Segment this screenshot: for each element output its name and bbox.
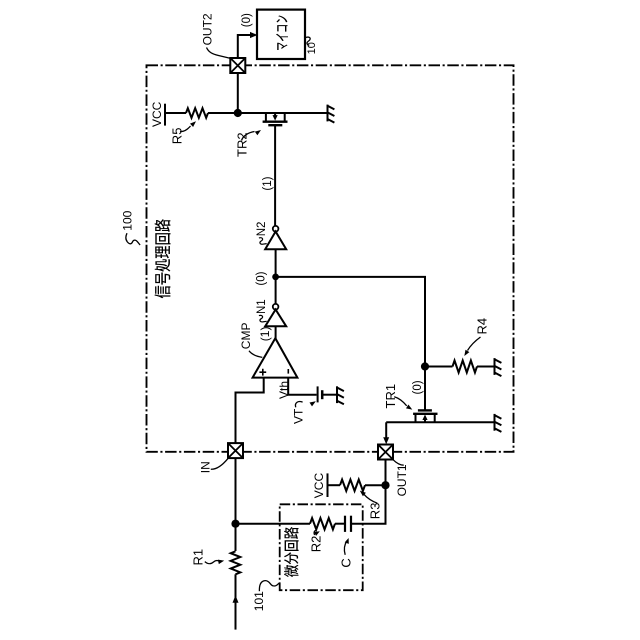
svg-text:R3: R3 — [368, 503, 383, 520]
svg-text:N1: N1 — [256, 299, 268, 314]
wire N2 input to node (0) to N1 output — [275, 249, 277, 304]
wire node left to R3 — [365, 484, 386, 486]
VCC rail (top) — [164, 104, 166, 126]
resistor R2 — [310, 518, 335, 529]
ground at TR1 — [494, 414, 496, 431]
wire: TR2 gate down to inverter N2 — [274, 125, 276, 226]
wire R5 to node and TR2 drain, to ground — [208, 112, 327, 114]
wire: OUT2 terminal to microcontroller with arrow — [238, 35, 252, 58]
label 信号処理回路 — [155, 219, 171, 298]
wire IN down to R1/differentiator node — [235, 458, 237, 551]
inverter N2 — [273, 226, 279, 232]
wire R3 to VCC rail — [329, 484, 341, 486]
svg-text:TR1: TR1 — [383, 384, 398, 409]
svg-text:101: 101 — [252, 591, 266, 611]
terminal OUT2 — [230, 58, 245, 73]
comparator CMP — [253, 338, 298, 377]
svg-text:100: 100 — [121, 210, 135, 230]
ground at TR2 source — [327, 105, 329, 122]
terminal OUT1 — [378, 445, 393, 460]
resistor R1 (vertical) — [231, 551, 241, 574]
signal processing circuit boundary box (dash-dot) 100 — [147, 65, 514, 452]
svg-text:N2: N2 — [256, 222, 268, 237]
minus input mark — [287, 369, 289, 374]
svg-text:IN: IN — [199, 461, 213, 473]
capacitor C — [344, 516, 346, 532]
svg-text:Vth: Vth — [277, 381, 291, 399]
plus input mark — [259, 369, 266, 376]
transistor TR1 (MOSFET, gate on top) — [418, 409, 432, 411]
wire: CMP + input down-left to IN terminal — [236, 378, 264, 444]
transistor TR2 (MOSFET) — [265, 113, 267, 122]
wire N1 input to comparator output — [275, 326, 277, 339]
differentiation circuit box 101 (dash-dot) — [280, 504, 363, 590]
VCC rail (bottom) — [327, 473, 329, 497]
junction node (0) — [272, 274, 279, 281]
resistor R4 — [425, 366, 453, 368]
microcontroller box 10 (マイコン) — [257, 10, 305, 59]
resistor R3 — [340, 480, 365, 491]
wire: node (0) right and down to R4/TR1 — [276, 277, 425, 410]
svg-text:TR2: TR2 — [235, 132, 250, 157]
svg-text:R5: R5 — [169, 128, 184, 145]
wire R2 to capacitor C — [335, 523, 345, 525]
terminal IN — [228, 443, 243, 458]
junction node below OUT1 — [381, 481, 389, 489]
svg-text:CMP: CMP — [239, 323, 253, 350]
svg-text:VCC: VCC — [312, 473, 326, 499]
svg-text:C: C — [338, 558, 353, 567]
wire node up to OUT1 terminal — [385, 460, 387, 486]
wire TR1 drain down into OUT1 with arrow — [385, 422, 387, 438]
svg-text:OUT2: OUT2 — [200, 13, 214, 45]
svg-text:(0): (0) — [256, 271, 268, 285]
svg-text:(0): (0) — [412, 380, 424, 394]
svg-text:VT: VT — [291, 408, 305, 424]
wire node to R2 — [236, 523, 311, 525]
junction node at R4 — [421, 362, 429, 370]
svg-text:(1): (1) — [262, 176, 274, 190]
wire C right and up to OUT1 node — [351, 485, 386, 524]
svg-text:VCC: VCC — [150, 101, 164, 127]
wire VCC to R5 — [165, 112, 186, 114]
voltage source VT (battery plates) — [317, 386, 319, 402]
junction node at OUT2/R5/TR2 — [234, 109, 242, 117]
svg-text:(1): (1) — [258, 327, 272, 342]
wire TR1 source to ground — [386, 421, 493, 423]
svg-text:R1: R1 — [190, 549, 205, 566]
wire: OUT2 down to VCC/R5/TR2 node — [237, 73, 239, 113]
svg-text:OUT1: OUT1 — [395, 464, 409, 496]
ground at VT — [336, 386, 338, 403]
resistor R5 — [186, 108, 208, 118]
wire: CMP - input to threshold source VT — [288, 378, 316, 395]
junction node at IN/R1/R2 — [231, 520, 239, 528]
svg-text:(0): (0) — [241, 13, 253, 27]
input wire with direction arrow — [235, 574, 237, 629]
label 微分回路 — [284, 527, 299, 577]
inverter N1 — [273, 304, 279, 310]
svg-text:R4: R4 — [474, 318, 489, 335]
svg-text:R2: R2 — [309, 536, 324, 553]
ground at R4 — [494, 358, 496, 375]
